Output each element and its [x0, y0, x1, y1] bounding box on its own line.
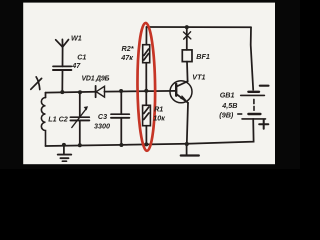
svg-text:VT1: VT1 [192, 73, 205, 82]
connector X (plug above BF1) [184, 27, 191, 50]
svg-text:C1: C1 [77, 52, 86, 61]
svg-text:C3: C3 [98, 112, 107, 121]
headphone BF1 [182, 50, 192, 62]
battery minus sign [260, 85, 269, 87]
transistor VT1 [170, 62, 192, 144]
leader dash from (9В) to bottom cell [237, 113, 242, 115]
svg-text:L1 C2: L1 C2 [48, 114, 68, 123]
resistor R2 [143, 27, 150, 91]
wire: top rail from R2 to battery [147, 26, 252, 28]
capacitor C1 [53, 66, 71, 70]
wire: right side vertical down to battery [251, 27, 254, 90]
junction dots [60, 25, 189, 147]
svg-text:W1: W1 [71, 34, 82, 43]
capacitor C3 [111, 91, 129, 145]
diode VD1 (cathode bar left, triangle opening right) [96, 86, 105, 97]
svg-text:3300: 3300 [94, 121, 110, 130]
annotation X mark near antenna input [31, 77, 42, 90]
battery GB1 [241, 92, 266, 119]
svg-text:R1: R1 [154, 105, 163, 114]
white schematic paper [23, 3, 275, 165]
wire: corner from mid rail down to L1 [45, 93, 47, 98]
svg-text:GB1: GB1 [220, 91, 235, 100]
svg-text:10к: 10к [153, 114, 165, 123]
node: BF1 / top rail [185, 25, 189, 29]
ground (earth) symbol left [58, 145, 71, 161]
wire: mid rail (left part, to diode cathode) [46, 91, 96, 94]
node: ground / bottom rail [62, 143, 66, 147]
capacitor C2 (variable) [70, 92, 89, 145]
node: R1 bottom [144, 142, 148, 146]
resistor R1 [143, 91, 151, 145]
node: C2 top [78, 90, 82, 94]
ground (chassis bar) under emitter [181, 144, 199, 156]
node: R2-R1 / mid rail [144, 89, 148, 93]
wire: bottom rail [46, 144, 188, 146]
black letterbox background [0, 0, 300, 169]
svg-text:R2*: R2* [122, 44, 135, 53]
svg-text:4,5В: 4,5В [221, 101, 237, 110]
svg-text:(9В): (9В) [219, 110, 234, 119]
red highlight ellipse around R2 and R1 [137, 23, 156, 151]
node: emitter / bottom rail [185, 142, 189, 146]
node: C1 / mid rail [60, 90, 64, 94]
node: C3 bottom [119, 143, 123, 147]
svg-text:47к: 47к [120, 53, 133, 62]
inductor L1 [41, 98, 45, 147]
svg-text:BF1: BF1 [196, 52, 210, 61]
node: C3 top [119, 89, 123, 93]
node: C2 bottom [78, 143, 82, 147]
svg-text:VD1 Д9Б: VD1 Д9Б [82, 75, 110, 82]
antenna W1 [56, 39, 69, 92]
wire: battery bottom to lower rail [187, 119, 254, 144]
svg-text:47: 47 [71, 61, 81, 70]
battery plus sign [259, 120, 268, 129]
wire: mid rail (diode to transistor base) [104, 90, 176, 93]
